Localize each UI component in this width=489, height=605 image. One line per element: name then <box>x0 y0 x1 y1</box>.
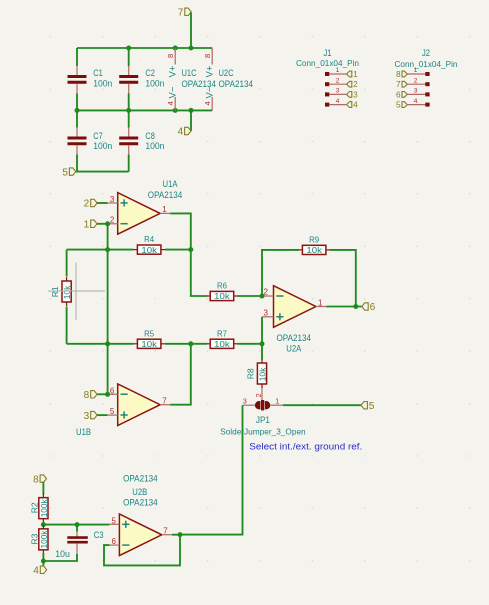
U2C V+ pin name <box>205 65 216 77</box>
label C7 <box>93 131 103 141</box>
op-amp U2C value OPA2134 <box>219 79 254 89</box>
svg-text:3: 3 <box>336 88 340 95</box>
capacitor C1 <box>68 77 87 83</box>
svg-text:10k: 10k <box>306 245 322 255</box>
hlabel7-shape <box>178 8 191 19</box>
svg-text:100n: 100n <box>145 141 164 151</box>
svg-text:1: 1 <box>84 220 90 231</box>
U2A pin 3 <box>262 316 274 318</box>
wire C3 top lead <box>76 525 78 532</box>
junction U2A pin2 node <box>260 294 265 299</box>
op-amp U2B value text <box>123 498 158 508</box>
wire label2 to U1A pin3 <box>97 202 108 204</box>
wire from label 7 to top rail <box>190 13 192 49</box>
svg-text:3: 3 <box>264 309 269 318</box>
svg-text:1: 1 <box>414 67 418 74</box>
wire R5 row left segment <box>67 343 134 345</box>
junction R4 row at U1A output column <box>188 247 193 252</box>
U2C pin 4 V- <box>211 97 213 110</box>
capacitor C2 <box>119 77 138 83</box>
junction mid rail at C2 <box>126 108 131 113</box>
svg-text:100k: 100k <box>39 499 49 518</box>
value R4 10k <box>141 245 157 255</box>
wire C8 top lead <box>128 110 130 127</box>
hierarchical label 1 at J1 pin 1 <box>347 70 359 79</box>
svg-text:V−: V− <box>205 86 216 98</box>
U1A pin 2 <box>108 223 118 225</box>
svg-text:8: 8 <box>84 390 90 401</box>
value C3 10u <box>55 549 70 559</box>
label R1 <box>50 286 60 297</box>
U1C pin number 8 <box>166 54 175 58</box>
U2B pin number 6 <box>112 537 117 546</box>
connector J1 pin 4 pad <box>325 103 329 107</box>
wire R6 to U2A pin2 <box>237 295 262 297</box>
J2 pin number 1 <box>414 67 418 74</box>
connector J1 pin 1 <box>329 73 346 75</box>
svg-text:R2: R2 <box>29 502 39 513</box>
svg-text:V−: V− <box>168 86 179 98</box>
op-amp U1C reference <box>182 68 197 78</box>
svg-text:R5: R5 <box>144 328 154 338</box>
U1A pin number 1 <box>162 205 167 214</box>
svg-text:1: 1 <box>353 70 358 79</box>
connector J2 pin 1 <box>407 73 425 75</box>
op-amp U2B reference text <box>132 487 147 497</box>
wire R1 top lead <box>66 250 68 277</box>
U1C pin number 4 <box>166 101 175 105</box>
wire C7 bottom lead <box>76 155 78 172</box>
J1 pin number 2 <box>336 77 340 84</box>
wire down to label 4 bottom <box>42 561 44 566</box>
connector J2 pin 4 <box>407 104 425 106</box>
svg-text:1: 1 <box>275 399 279 406</box>
capacitor C2 upper pin <box>128 66 130 76</box>
junction top rail at U1C <box>173 46 178 51</box>
hierarchical label 5 at J2 pin 4 <box>396 101 407 110</box>
svg-text:7: 7 <box>163 527 168 536</box>
J2 pin number 4 <box>414 98 418 105</box>
svg-text:2: 2 <box>336 77 340 84</box>
wire C7 top lead <box>76 110 78 127</box>
svg-text:8: 8 <box>33 474 39 485</box>
label R4 <box>144 234 154 244</box>
junction U1B pin6 node <box>105 392 110 397</box>
solder jumper JP1 <box>255 400 270 410</box>
U1A pin 3 <box>108 202 118 204</box>
label R5 <box>144 328 154 338</box>
J1 pin number 1 <box>336 67 340 74</box>
U1B pin number 5 <box>110 407 115 416</box>
svg-text:C8: C8 <box>145 131 155 141</box>
U1B pin 5 <box>108 414 118 416</box>
svg-text:10k: 10k <box>214 339 230 349</box>
svg-text:2: 2 <box>353 80 358 89</box>
svg-text:4: 4 <box>178 127 184 138</box>
U1B pin 6 <box>108 393 118 395</box>
svg-text:6: 6 <box>110 386 115 395</box>
svg-text:C1: C1 <box>93 68 103 78</box>
hlabel4b-shape <box>33 566 46 577</box>
value C2 100n <box>145 79 164 89</box>
U2B pin number 7 <box>163 527 168 536</box>
U1B pin 7 output <box>160 404 170 406</box>
U2A pin 1 output <box>316 306 326 308</box>
capacitor C3 <box>67 538 88 543</box>
U1B pin number 6 <box>110 386 115 395</box>
op-amp U2A body <box>274 286 316 328</box>
capacitor C2 lower pin <box>128 84 130 94</box>
svg-text:U2A: U2A <box>286 344 301 354</box>
svg-text:10k: 10k <box>214 291 230 301</box>
junction mid rail at U1C <box>173 108 178 113</box>
hierarchical label 1 at U1A pin2 <box>84 220 97 231</box>
svg-text:U2B: U2B <box>132 487 147 497</box>
junction top rail at C2 <box>126 46 131 51</box>
wire U2B output node <box>172 534 180 536</box>
label C8 <box>145 131 155 141</box>
wire R3 bottom to ground row <box>42 553 44 561</box>
note Select int./ext. ground ref. <box>249 441 362 451</box>
connector J1 pin 4 <box>329 104 346 106</box>
U1C pin 8 V+ <box>174 48 176 65</box>
junction mid rail at C1 <box>75 108 80 113</box>
wire U1A output to R4 net <box>170 213 191 249</box>
hierarchical label 2 at U1A pin3 <box>84 199 97 210</box>
junction R2 R3 node <box>41 522 46 527</box>
hierarchical label 4 top <box>178 127 191 138</box>
wire input row to U2B pin5 <box>43 524 109 526</box>
connector J2 pin 1 pad <box>425 72 429 76</box>
wire C3 bottom to ground row <box>43 554 77 561</box>
connector J1 pin 3 <box>329 93 346 95</box>
junction U2B output <box>178 532 183 537</box>
JP1 pin number 2 <box>256 393 263 397</box>
U2A pin number 2 <box>264 288 269 297</box>
svg-text:100n: 100n <box>93 79 112 89</box>
connector J1 pin 1 pad <box>325 72 329 76</box>
resistor R8 <box>257 359 266 388</box>
svg-text:R8: R8 <box>245 368 255 379</box>
label C2 <box>145 68 155 78</box>
op-amp U2A reference text <box>286 344 301 354</box>
label C3 <box>94 530 104 540</box>
wire C2 bottom lead <box>128 94 130 111</box>
wire R1 bottom lead <box>66 307 68 344</box>
capacitor C8 lower pin <box>128 146 130 155</box>
hierarchical label 3 at U1B pin5 <box>84 411 97 422</box>
connector J1 reference <box>324 48 332 58</box>
svg-text:7: 7 <box>162 397 167 406</box>
junction R4 row at U1A pin2 column <box>105 247 110 252</box>
U1A pin 1 output <box>160 212 170 214</box>
svg-text:5: 5 <box>396 101 401 110</box>
wire bottom rail V- <box>76 171 129 173</box>
svg-text:R6: R6 <box>217 281 227 291</box>
hierarchical label 8 at U1B pin6 <box>84 390 97 401</box>
capacitor C7 <box>68 138 87 144</box>
svg-text:OPA2134: OPA2134 <box>148 190 183 200</box>
connector J2 pin 3 pad <box>425 92 429 96</box>
wire U1A-out column down to R6 <box>191 250 207 296</box>
junction top rail at label7 <box>189 46 194 51</box>
U2C pin 8 V+ <box>211 48 213 65</box>
value R9 10k <box>306 245 322 255</box>
hierarchical label 4 at J1 pin 4 <box>347 101 359 110</box>
U1C V+ pin name <box>168 65 179 77</box>
wire R2 to junction row <box>42 522 44 525</box>
resistor R7 <box>206 339 238 348</box>
svg-text:C2: C2 <box>145 68 155 78</box>
wire U2A output to label 6 <box>326 306 362 308</box>
svg-text:4: 4 <box>166 101 175 105</box>
hierarchical label 2 at J1 pin 2 <box>347 80 359 89</box>
op-amp U1B body <box>118 384 160 426</box>
svg-text:4: 4 <box>414 98 418 105</box>
svg-text:10k: 10k <box>257 367 267 381</box>
value C1 100n <box>93 79 112 89</box>
svg-text:8: 8 <box>166 54 175 58</box>
svg-text:U1A: U1A <box>163 179 178 189</box>
svg-text:Select int./ext. ground ref.: Select int./ext. ground ref. <box>249 441 362 451</box>
svg-text:1: 1 <box>318 298 323 307</box>
resistor R9 <box>298 245 330 254</box>
svg-text:R9: R9 <box>309 234 319 244</box>
connector J2 pin 3 <box>407 93 425 95</box>
U2C pin number 4 <box>203 101 212 105</box>
svg-text:J2: J2 <box>422 48 430 58</box>
U2B pin 7 output <box>162 534 172 536</box>
label R3 <box>29 533 39 544</box>
wire C1 top lead <box>76 48 78 66</box>
svg-text:100n: 100n <box>93 141 112 151</box>
svg-text:6: 6 <box>112 537 117 546</box>
J1 pin number 3 <box>336 88 340 95</box>
svg-text:3: 3 <box>414 88 418 95</box>
U1C pin 4 V- <box>174 97 176 110</box>
label R6 <box>217 281 227 291</box>
jumper JP1 value SolderJumper_3_Open <box>220 427 306 437</box>
connector J2 reference <box>422 48 430 58</box>
wire R5 to R7 <box>165 343 207 345</box>
svg-text:10k: 10k <box>141 339 157 349</box>
svg-text:V+: V+ <box>205 65 216 77</box>
svg-text:V+: V+ <box>168 65 179 77</box>
wire JP1 pin1 to label 5 <box>283 404 361 406</box>
hierarchical label 6 at J2 pin 3 <box>396 90 407 99</box>
op-amp U1C value OPA2134 <box>182 79 217 89</box>
value R2 100k <box>39 499 49 518</box>
resistor R4 <box>133 245 165 254</box>
wire R8 top lead <box>261 344 263 360</box>
svg-text:U1C: U1C <box>182 68 197 78</box>
svg-text:5: 5 <box>62 167 68 178</box>
wire R4 to U1A output node <box>165 249 191 251</box>
hierarchical label 6 output <box>362 302 376 313</box>
junction R7 right at R8 column <box>260 341 265 346</box>
op-amp U1A value text <box>148 190 183 200</box>
capacitor C1 upper pin <box>76 66 78 76</box>
svg-text:100k: 100k <box>39 530 49 549</box>
svg-text:5: 5 <box>112 516 117 525</box>
hierarchical label 8 at J2 pin 1 <box>396 70 407 79</box>
wire label1 to U1A pin2 <box>97 223 108 225</box>
capacitor C7 lower pin <box>76 146 78 155</box>
svg-text:7: 7 <box>178 8 184 19</box>
value R5 10k <box>141 339 157 349</box>
svg-text:4: 4 <box>203 101 212 105</box>
capacitor C8 upper pin <box>128 128 130 138</box>
U2B pin 5 <box>109 523 119 525</box>
svg-text:C3: C3 <box>94 530 104 540</box>
svg-text:U1B: U1B <box>76 427 91 437</box>
wire top power rail V+ <box>77 47 212 49</box>
connector J1 pin 3 pad <box>325 92 329 96</box>
svg-text:1: 1 <box>336 67 340 74</box>
svg-text:2: 2 <box>414 77 418 84</box>
value R3 100k <box>39 530 49 549</box>
svg-text:100n: 100n <box>145 79 164 89</box>
junction R5 row at U1B output column <box>188 341 193 346</box>
U2A pin 2 <box>262 295 274 297</box>
hierarchical label 5 left <box>62 167 75 178</box>
junction mid rail at label4 <box>189 108 194 113</box>
wire U2B feedback loop <box>104 535 180 566</box>
op-amp U2B value OPA2134 upper <box>123 474 158 484</box>
value C7 100n <box>93 141 112 151</box>
resistor R1 <box>62 277 71 306</box>
value R7 10k <box>214 339 230 349</box>
junction R5 row at inverting column <box>105 341 110 346</box>
svg-text:R3: R3 <box>29 533 39 544</box>
junction C3 top <box>75 522 80 527</box>
wire C8 bottom lead <box>128 155 130 172</box>
op-amp U1A body <box>118 193 160 235</box>
svg-text:2: 2 <box>256 393 263 397</box>
svg-text:8: 8 <box>203 54 212 58</box>
resistor R6 <box>206 291 238 300</box>
svg-text:4: 4 <box>33 566 39 577</box>
label R2 <box>29 502 39 513</box>
svg-text:OPA2134: OPA2134 <box>219 79 254 89</box>
svg-text:3: 3 <box>243 399 247 406</box>
svg-text:Conn_01x04_Pin: Conn_01x04_Pin <box>296 58 359 68</box>
U1A pin number 3 <box>110 195 115 204</box>
wire U1B output up to R7 node <box>170 344 191 405</box>
U2B pin 6 <box>109 544 119 546</box>
resistor R2 <box>39 494 48 523</box>
label R9 <box>309 234 319 244</box>
value R6 10k <box>214 291 230 301</box>
label R7 <box>217 328 227 338</box>
hierarchical label 7 at J2 pin 2 <box>396 80 407 89</box>
cursor crosshair <box>48 263 105 320</box>
wire label8 to U1B pin6 <box>97 393 108 395</box>
resistor R5 <box>133 339 165 348</box>
svg-text:R7: R7 <box>217 328 227 338</box>
wire U2A pin3 down to R7 node <box>261 317 263 344</box>
op-amp U2A value text <box>277 333 312 343</box>
wire R4 row left segment <box>67 249 134 251</box>
JP1 pin 1 <box>270 404 283 406</box>
svg-text:OPA2134: OPA2134 <box>277 333 312 343</box>
op-amp U1B reference text <box>76 427 91 437</box>
JP1 pin 2 <box>261 388 263 401</box>
junction R3 bottom node <box>41 559 46 564</box>
capacitor C3 upper pin <box>76 532 78 537</box>
capacitor C7 upper pin <box>76 128 78 138</box>
svg-text:J1: J1 <box>324 48 332 58</box>
svg-text:3: 3 <box>84 411 90 422</box>
svg-text:4: 4 <box>353 101 358 110</box>
svg-text:JP1: JP1 <box>256 415 270 425</box>
svg-text:6: 6 <box>370 302 376 313</box>
J1 pin number 4 <box>336 98 340 105</box>
svg-text:10k: 10k <box>141 245 157 255</box>
resistor R3 <box>39 525 48 554</box>
svg-text:U2C: U2C <box>219 68 234 78</box>
connector J2 pin 2 pad <box>425 82 429 86</box>
hierarchical label 3 at J1 pin 3 <box>347 90 359 99</box>
op-amp U2C reference <box>219 68 234 78</box>
wire mid power rail V- <box>77 109 212 111</box>
J2 pin number 3 <box>414 88 418 95</box>
wire mid rail to label 4 <box>190 110 192 131</box>
connector J2 pin 4 pad <box>425 103 429 107</box>
U2B pin number 5 <box>112 516 117 525</box>
wire label8 to R2 <box>42 482 44 495</box>
svg-text:10k: 10k <box>62 285 72 299</box>
op-amp U1A reference text <box>163 179 178 189</box>
hlabel8-shape <box>33 474 46 485</box>
U2C pin number 8 <box>203 54 212 58</box>
svg-text:7: 7 <box>396 80 401 89</box>
svg-text:OPA2134: OPA2134 <box>123 474 158 484</box>
J2 pin number 2 <box>414 77 418 84</box>
U2C V- pin name <box>205 86 216 98</box>
svg-text:OPA2134: OPA2134 <box>123 498 158 508</box>
svg-text:3: 3 <box>110 195 115 204</box>
jumper JP1 reference <box>256 415 270 425</box>
svg-text:3: 3 <box>353 90 358 99</box>
hierarchical label 5 at JP1 <box>361 401 375 412</box>
U1B pin number 7 <box>162 397 167 406</box>
svg-text:2: 2 <box>84 199 90 210</box>
svg-text:R4: R4 <box>144 234 154 244</box>
junction U1A pin2 node <box>105 221 110 226</box>
value R1 10k <box>62 285 72 299</box>
JP1 pin number 1 <box>275 399 279 406</box>
svg-text:C7: C7 <box>93 131 103 141</box>
svg-text:5: 5 <box>369 401 375 412</box>
wire JP1 pin3 down to U2B output <box>180 405 243 534</box>
connector J2 value Conn_01x04_Pin <box>395 59 458 69</box>
svg-text:4: 4 <box>336 98 340 105</box>
connector J1 pin 2 pad <box>325 82 329 86</box>
wire R7 to U2A pin3 node <box>237 343 262 345</box>
svg-text:10u: 10u <box>55 549 70 559</box>
U1C V- pin name <box>168 86 179 98</box>
capacitor C8 <box>119 138 138 144</box>
op-amp U2B body <box>119 514 161 556</box>
U1A pin number 2 <box>110 216 115 225</box>
junction U2A output node <box>353 304 358 309</box>
label R8 <box>245 368 255 379</box>
value R8 10k <box>257 367 267 381</box>
wire C2 top lead <box>128 48 130 66</box>
wire vertical inverting net <box>107 224 109 394</box>
wire R9 to output node <box>330 250 356 307</box>
